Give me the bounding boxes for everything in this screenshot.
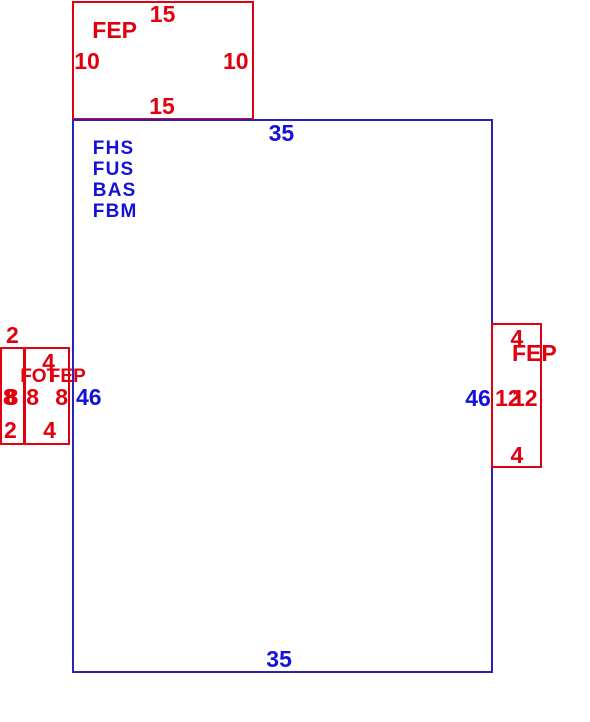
dimension 15 (top rect, top) [150, 3, 176, 26]
dimension 8 (left cluster, big box right) [55, 386, 68, 409]
label FEP (left cluster) [49, 367, 86, 386]
dimension 4 (right cluster, top) [511, 327, 524, 350]
dimension 46 (room, right) [465, 387, 491, 410]
dimension 8 (left cluster, big box left) [26, 386, 39, 409]
room labels FHS FUS BAS FBM [93, 138, 138, 222]
dimension 4 (right cluster, bottom) [511, 444, 524, 467]
dimension 8 (left cluster, doubled second) [6, 386, 19, 409]
window box FEP (left big) [24, 347, 71, 445]
dimension 10 (top rect, left) [74, 50, 100, 73]
dimension 35 (room, top) [269, 122, 295, 145]
dimension 8 (left cluster, in small box, doubled) [3, 386, 16, 409]
room outline (blue) [72, 119, 494, 673]
dimension 2 (left cluster, bottom) [4, 419, 17, 442]
label FOT (left cluster) [20, 367, 58, 386]
label FEP (top rect) [92, 19, 137, 42]
dimension 35 (room, bottom) [266, 648, 292, 671]
dimension 4 (left cluster, bottom) [43, 419, 56, 442]
window box FEP (top) [72, 1, 254, 120]
window box FOT (left small) [0, 347, 25, 445]
dimension 10 (top rect, right) [223, 50, 249, 73]
label FEP (right cluster) [512, 342, 557, 365]
window box FEP (right) [491, 323, 542, 468]
dimension 15 (top rect, bottom) [149, 95, 175, 118]
dimension 2 (left cluster, above) [6, 324, 19, 347]
dimension 12 (right cluster, second overlapping) [512, 387, 538, 410]
dimension 12 (right cluster, first) [495, 387, 521, 410]
dimension 4 (left cluster, top) [42, 351, 55, 374]
dimension 46 (room, left) [76, 386, 102, 409]
